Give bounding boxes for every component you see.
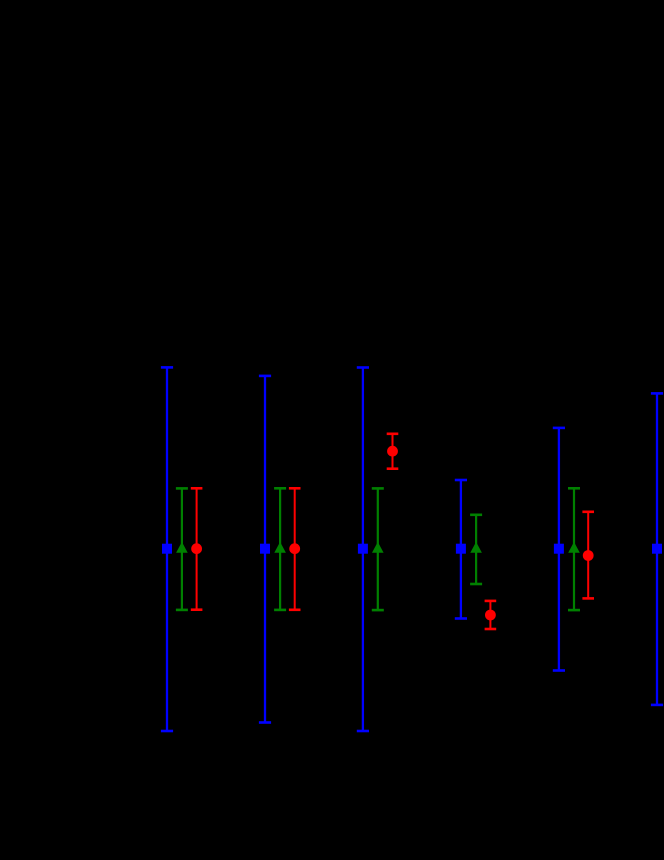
red circle marker group 4 <box>485 610 496 621</box>
green errorbar group 1 <box>176 488 188 610</box>
green errorbar group 3 <box>372 488 384 610</box>
blue errorbar group 4 <box>455 480 467 619</box>
blue square marker group 1 <box>162 544 172 554</box>
green triangle marker group 3 <box>372 542 384 553</box>
green errorbar group 2 <box>274 488 286 610</box>
red errorbar group 5 <box>582 512 594 599</box>
red circle marker group 3 <box>387 446 398 457</box>
green triangle marker group 2 <box>274 542 286 553</box>
blue square marker group 6 <box>652 544 662 554</box>
green errorbar group 4 <box>470 515 482 584</box>
blue square marker group 2 <box>260 544 270 554</box>
red errorbar group 4 <box>485 601 497 629</box>
blue errorbar group 2 <box>259 376 271 723</box>
blue errorbar group 6 <box>651 393 663 705</box>
blue errorbar group 5 <box>553 428 565 671</box>
red circle marker group 5 <box>583 550 594 561</box>
red circle marker group 1 <box>191 543 202 554</box>
green errorbar group 5 <box>568 488 580 610</box>
blue square marker group 4 <box>456 544 466 554</box>
blue square marker group 3 <box>358 544 368 554</box>
red errorbar group 2 <box>289 488 301 610</box>
blue square marker group 5 <box>554 544 564 554</box>
red circle marker group 2 <box>289 543 300 554</box>
red errorbar group 3 <box>387 434 399 469</box>
blue errorbar group 3 <box>357 368 369 732</box>
green triangle marker group 5 <box>568 542 580 553</box>
blue errorbar group 1 <box>161 367 173 731</box>
green triangle marker group 4 <box>470 542 482 553</box>
red errorbar group 1 <box>191 488 203 609</box>
green triangle marker group 1 <box>176 542 188 553</box>
